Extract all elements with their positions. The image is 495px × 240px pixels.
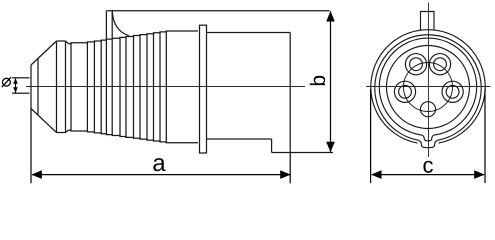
gland band bottom edge (57, 132, 66, 134)
pin L2 top-right outer (429, 54, 450, 75)
cable gland tip face (30, 65, 32, 109)
dimension diameter (12, 78, 30, 93)
a left extension line (30, 109, 32, 184)
main body right edge (289, 33, 291, 153)
a left arrowhead (31, 170, 42, 179)
rib line 3 (93, 41, 95, 133)
rib line 4 (100, 40, 102, 134)
arrow shaft (15, 79, 17, 93)
a right arrowhead (280, 170, 291, 179)
rib line 12 (153, 33, 155, 141)
rib line 2 (86, 42, 88, 132)
latch spring curve (112, 11, 129, 36)
pin L3 inner (446, 85, 459, 98)
centerline side view (26, 86, 305, 88)
a right extension line (289, 153, 291, 184)
main body top edge (207, 32, 291, 34)
rib line 13 (159, 32, 161, 142)
rib line 14 (165, 31, 167, 143)
main body bottom edge (207, 138, 272, 140)
gland front edge (56, 41, 58, 133)
cone bottom profile (69, 130, 199, 143)
front vertical centerline (428, 3, 430, 158)
cone top profile (69, 31, 199, 44)
rim circle with keyway gap (375, 35, 481, 140)
pin L3 right outer (442, 81, 463, 102)
top step slant (66, 41, 69, 44)
latch post rib right (111, 11, 113, 136)
pin earth bottom (421, 102, 436, 117)
gland top slant (31, 41, 57, 65)
front view (366, 3, 491, 158)
bottom step vertical (271, 139, 273, 153)
pin L2 inner (434, 58, 447, 71)
c right arrowhead (474, 170, 485, 179)
pin N inner (399, 85, 412, 98)
diameter down arrowhead (13, 87, 18, 93)
c left arrowhead (371, 170, 382, 179)
c left extension line (370, 89, 372, 183)
c dimension line (372, 174, 484, 176)
label diameter (2, 77, 11, 87)
collar ring (200, 25, 207, 153)
face circle with keyway gap (379, 38, 476, 135)
bottom step edge and b bottom extension (272, 152, 333, 154)
step corner vertical (65, 41, 67, 133)
c right extension line (484, 89, 486, 183)
pin L1 inner (410, 58, 423, 71)
b top arrowhead (326, 11, 335, 22)
pin L1 top-left outer (405, 54, 426, 75)
latch lever top line and b top extension (106, 10, 329, 12)
dimension a (31, 109, 290, 184)
rib line 10 (139, 35, 141, 140)
label b (310, 76, 325, 85)
rib line 7 (119, 37, 121, 136)
front horizontal centerline (366, 86, 491, 88)
upper extension line (12, 77, 30, 79)
rib line 1 (70, 43, 72, 131)
dimension c (371, 89, 485, 183)
gland band top edge (57, 40, 66, 42)
bottom step slant (66, 130, 69, 132)
recess circle (387, 46, 470, 129)
keyway inner notch (422, 135, 435, 141)
rib line 9 (133, 36, 135, 139)
top tab (421, 12, 435, 31)
diameter up arrowhead (13, 78, 18, 84)
b dimension line (330, 11, 332, 152)
a dimension line (32, 174, 290, 176)
rib line 8 (125, 36, 127, 137)
pitch circle (404, 63, 453, 112)
latch post rib left (105, 11, 107, 135)
pin N left outer (394, 81, 415, 102)
dimension b (330, 11, 332, 152)
label c (423, 161, 432, 173)
outer circle with gap at keyway (371, 30, 485, 143)
rib line 11 (146, 34, 148, 140)
b bottom arrowhead (326, 142, 335, 153)
gland inner vertical (37, 58, 39, 115)
keyway outer notch (418, 140, 438, 147)
label a (153, 158, 165, 171)
lower extension line (12, 92, 30, 94)
gland bottom slant (31, 109, 57, 133)
